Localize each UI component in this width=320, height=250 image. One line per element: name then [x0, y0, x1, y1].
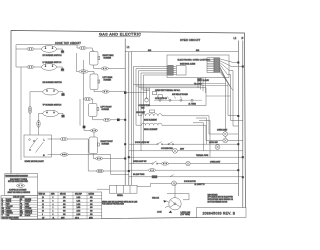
svg-text:250: 250 [63, 197, 66, 199]
svg-text:BAKE BROIL CLEAN: BAKE BROIL CLEAN [180, 63, 196, 66]
svg-text:C1 NO C2 NC C3: C1 NO C2 NC C3 [155, 98, 167, 100]
motor convection fan [145, 88, 149, 103]
connector EOC right block [207, 58, 220, 73]
wire module out N [52, 154, 61, 156]
svg-text:600: 600 [90, 197, 93, 199]
title GAS AND ELECTRIC [99, 33, 142, 37]
pin N [43, 155, 52, 158]
wire left bus x=21 [16, 49, 21, 160]
junction bus taps [124, 119, 130, 172]
svg-text:BROIL ELEMENT: BROIL ELEMENT [144, 129, 157, 131]
wire row light y=163.6 [129, 163, 238, 165]
wire TB right [137, 183, 151, 186]
svg-text:DOOR LATCH SW: DOOR LATCH SW [135, 141, 150, 144]
wire harness vertical drops [134, 85, 144, 164]
wire feed to valve column [77, 45, 79, 48]
wire into valve 4 [93, 132, 95, 137]
wire to bus row 158 [103, 158, 126, 160]
wire bus third mid [130, 52, 132, 186]
wire valve4 output 1 [93, 154, 95, 159]
connector valve4 out 2 [96, 169, 104, 172]
svg-text:COOLING FAN: COOLING FAN [161, 147, 173, 150]
wire lamp links [225, 134, 243, 141]
svg-text:16: 16 [42, 200, 44, 202]
wire valve2 out to bus [109, 91, 125, 93]
svg-text:THERMAL FUSE: THERMAL FUSE [196, 154, 208, 157]
label OVEN CIRCUIT [180, 39, 201, 42]
junction splice B [83, 126, 86, 129]
wire row motor y=183.4 [151, 182, 239, 184]
connector P1 row1 [27, 47, 34, 50]
wire EOC bottom drops [198, 78, 206, 93]
svg-text:TF BURNER SWITCH: TF BURNER SWITCH [43, 104, 62, 106]
wire vertical pair mid column [80, 60, 83, 126]
svg-text:18: 18 [42, 197, 44, 199]
lamp oven light 1 [223, 132, 228, 137]
igniter RF [61, 49, 64, 53]
svg-text:BK: BK [20, 215, 22, 217]
svg-text:600: 600 [90, 211, 93, 213]
svg-text:L: L [44, 140, 46, 142]
svg-text:600: 600 [90, 204, 93, 206]
svg-text:400: 400 [63, 200, 66, 202]
svg-text:W/B: W/B [20, 213, 23, 215]
svg-text:OVEN LIGHT SW: OVEN LIGHT SW [133, 161, 147, 163]
svg-text:OVEN LIGHT: OVEN LIGHT [210, 161, 220, 163]
svg-text:GREEN: GREEN [6, 210, 11, 212]
junction splice A [117, 119, 120, 122]
wire EOC left harness [134, 66, 168, 90]
connector P2 row2 [27, 65, 34, 68]
connector module L [60, 137, 67, 140]
spark module contacts [29, 138, 44, 153]
svg-text:208845033 REV. B: 208845033 REV. B [203, 212, 236, 216]
connector P4 [37, 120, 40, 127]
valve right rear burner [90, 50, 102, 68]
svg-text:L1: L1 [127, 46, 130, 49]
svg-text:LOCK: LOCK [157, 212, 162, 214]
motor latch [215, 144, 220, 149]
wire EOC harness corners [134, 85, 201, 91]
wire relay upper links [198, 84, 231, 97]
svg-text:600: 600 [90, 214, 93, 216]
relay coil row [154, 99, 202, 101]
svg-text:999: 999 [63, 214, 66, 216]
svg-text:(TOP VIEW): (TOP VIEW) [181, 214, 191, 216]
warning box [5, 174, 38, 196]
svg-text:5A 240V: 5A 240V [203, 79, 210, 82]
motor cooling fan [173, 148, 178, 153]
table color entries [2, 198, 32, 220]
svg-text:8A 125V FUSE: 8A 125V FUSE [133, 173, 145, 176]
svg-text:MIN CIR: MIN CIR [60, 194, 67, 196]
wire row2 y=67 [21, 66, 63, 68]
svg-text:GN: GN [2, 210, 4, 212]
label LEFT FRONT BURNER [101, 106, 113, 110]
wire valve4 output 2 [88, 139, 96, 171]
part number box [197, 208, 247, 218]
svg-text:N: N [242, 37, 244, 40]
connector P3 [28, 106, 31, 113]
connector valve1 out [101, 67, 108, 70]
label LEFT REAR BURNER [103, 76, 114, 81]
node N [242, 37, 244, 40]
connector row 170 [148, 169, 155, 172]
wire L1 to relay board [125, 92, 147, 94]
wire to bus [110, 119, 125, 121]
wire row y=170.2 [129, 169, 238, 171]
connector light [161, 162, 168, 165]
wire bus L2 right [237, 41, 239, 197]
wire bus neutral mid [128, 52, 130, 185]
svg-text:600: 600 [90, 200, 93, 202]
svg-text:2.053: 2.053 [77, 207, 81, 209]
svg-text:YELLOW: YELLOW [6, 206, 13, 208]
svg-text:120V: 120V [180, 148, 185, 150]
svg-text:PK: PK [20, 204, 22, 206]
pin L [44, 139, 52, 142]
wire module N long run [68, 155, 129, 175]
wire valve1 out to bus [108, 68, 125, 70]
connector valve3 out [103, 118, 110, 121]
svg-text:V: V [20, 201, 21, 203]
latch cam mechanism [165, 183, 189, 210]
node L2 [234, 37, 237, 40]
svg-text:CU: CU [42, 217, 44, 219]
svg-text:WHT/BLK: WHT/BLK [25, 213, 32, 215]
connector module N [61, 153, 69, 156]
wire into valve 2 [88, 72, 94, 75]
svg-text:BURNER: BURNER [104, 79, 112, 81]
svg-text:UNLOCK: UNLOCK [152, 197, 160, 199]
switch RR burner switch row3 [43, 89, 59, 96]
switch row fuse [170, 175, 174, 177]
relay steps [153, 92, 163, 98]
svg-text:BEFORE SERVICING UNIT.: BEFORE SERVICING UNIT. [8, 181, 29, 183]
valve left front burner [89, 104, 99, 117]
svg-text:BAKE ELEMENT: BAKE ELEMENT [144, 119, 157, 122]
svg-text:BLUE: BLUE [6, 208, 10, 210]
svg-text:LF BURNER SWITCH: LF BURNER SWITCH [43, 62, 62, 64]
svg-text:Y: Y [2, 206, 3, 208]
wire right bundle taps [228, 116, 243, 126]
wire bus N right [242, 41, 244, 209]
svg-text:#16: #16 [196, 50, 199, 52]
junction L1 tap [124, 91, 126, 93]
thermostat high limit [150, 110, 155, 113]
svg-text:VIOLET: VIOLET [25, 201, 30, 203]
lamp oven lamp [186, 161, 190, 165]
svg-text:BU: BU [2, 208, 4, 210]
wire row latch y=144 [129, 143, 238, 145]
switch door latch [157, 142, 174, 145]
wire module L to column [67, 138, 88, 140]
valve left rear burner [90, 74, 102, 92]
svg-text:14: 14 [42, 204, 44, 206]
connector valve2 out [102, 90, 109, 93]
switch TF burner switch row4 [43, 110, 59, 117]
switch oven light [152, 161, 158, 164]
svg-text:OVEN VENT THERMAL SW N.O.: OVEN VENT THERMAL SW N.O. [155, 89, 181, 92]
svg-text:1.291: 1.291 [77, 200, 81, 202]
svg-text:N: N [43, 155, 45, 157]
junction right bus taps [237, 62, 244, 179]
svg-text:L2: L2 [234, 37, 237, 40]
wire bus x=30 row3 drop [29, 92, 31, 135]
table wire gauge [38, 192, 102, 219]
switch LF burner switch [42, 64, 57, 71]
wire junction B link [84, 128, 90, 130]
svg-text:WARNING/AVERTISSEMENT: WARNING/AVERTISSEMENT [5, 174, 28, 177]
wire right vertical drop group [226, 71, 234, 132]
op electronic oven control box U1 [167, 55, 229, 78]
switch RF burner switch [42, 46, 57, 53]
svg-text:AL LIGHT TB: AL LIGHT TB [195, 183, 206, 186]
svg-text:GY: GY [20, 206, 22, 208]
note text block [97, 199, 139, 206]
wire top feed y=44.7 [16, 45, 77, 48]
svg-text:999: 999 [63, 211, 66, 213]
label RIGHT REAR BURNER [103, 54, 115, 59]
svg-text:PINK: PINK [25, 204, 29, 206]
svg-text:1.628: 1.628 [77, 204, 81, 206]
connector valve 3 feed [84, 97, 92, 100]
svg-text:10: 10 [42, 211, 44, 213]
label COOK TOP CIRCUIT [54, 42, 81, 45]
svg-text:800: 800 [63, 207, 66, 209]
svg-text:LB: LB [20, 208, 22, 210]
label RIGHT FRONT BURNER [101, 141, 114, 145]
spark module box [24, 135, 52, 157]
wire module out L [52, 138, 61, 140]
svg-text:B: B [2, 199, 3, 201]
heater broil element [136, 123, 223, 140]
svg-text:SERIAL: SERIAL [117, 194, 123, 197]
svg-text:600: 600 [90, 207, 93, 209]
wire row y=157.2 [129, 156, 243, 158]
svg-text:BOTTOM HINGED DOOR: BOTTOM HINGED DOOR [208, 201, 229, 203]
wire into valve 1 [86, 48, 92, 52]
svg-text:BURNER: BURNER [102, 109, 110, 111]
svg-text:AUX RELAY BOARD: AUX RELAY BOARD [172, 93, 189, 96]
svg-text:BURNER: BURNER [102, 144, 110, 146]
svg-text:OVEN LIGHT: OVEN LIGHT [217, 129, 227, 131]
table color code [1, 196, 38, 220]
svg-text:DISCONNECT POWER: DISCONNECT POWER [10, 179, 28, 181]
lamp oven light 2 [223, 138, 228, 143]
igniter LF [61, 67, 64, 71]
wire bus x=38.5 row4 drop [38, 113, 40, 135]
svg-text:1.024: 1.024 [77, 197, 81, 199]
svg-text:T: T [2, 215, 3, 217]
important text block [208, 193, 234, 203]
svg-text:LATCH SW: LATCH SW [209, 141, 218, 144]
arrow unlock [164, 200, 167, 203]
connector right rear valve [79, 46, 86, 49]
connector valve4 out 1 [95, 157, 102, 160]
svg-text:AL TERM: AL TERM [189, 103, 197, 106]
wire into valve 3 [83, 99, 92, 104]
svg-text:600V: 600V [61, 217, 65, 219]
wire nested corner group [193, 118, 210, 157]
svg-text:RF BURNER SWITCH: RF BURNER SWITCH [43, 55, 63, 57]
svg-text:12: 12 [42, 207, 44, 209]
svg-text:TB CONN: TB CONN [194, 84, 202, 86]
igniter RR [61, 92, 64, 96]
svg-text:GAS AND ELECTRIC: GAS AND ELECTRIC [99, 33, 141, 37]
wire stub valve2 feed [77, 53, 80, 72]
connector left rear valve [79, 70, 88, 73]
wire left bus x=16 [15, 48, 17, 50]
svg-text:BROWN: BROWN [25, 199, 31, 201]
svg-text:3.264: 3.264 [77, 214, 81, 216]
wire row fuse y=176.8 [129, 176, 243, 178]
wire #16 top run [125, 50, 238, 52]
wire TB left [97, 188, 110, 190]
fuse 5A 240V [198, 79, 210, 83]
connector EOC left block [168, 65, 186, 75]
motor door lock [172, 181, 177, 186]
border frame [11, 31, 246, 220]
svg-text:OVEN CIRCUIT: OVEN CIRCUIT [180, 39, 201, 42]
wire row3 [30, 91, 63, 93]
terminal block TB [110, 185, 138, 193]
connector warning symbol [17, 184, 25, 187]
wire row cooling y=150.8 [129, 150, 243, 152]
fuse 8A [152, 176, 157, 178]
label LATCH CAM [181, 211, 191, 216]
wire row4 [39, 112, 64, 114]
svg-text:COLOR CODE: COLOR CODE [13, 197, 25, 199]
svg-text:SPARK MODULE ASSY: SPARK MODULE ASSY [25, 160, 45, 163]
wire to bus row 171 [104, 170, 129, 172]
table wire gauge entries [39, 193, 95, 220]
svg-text:#16: #16 [148, 50, 151, 52]
svg-text:2.588: 2.588 [77, 211, 81, 213]
connector valve 4 feed [90, 129, 97, 132]
wire row1 y=49 [16, 48, 63, 50]
svg-text:BURNER: BURNER [104, 58, 112, 60]
igniter TF [61, 113, 64, 117]
wire valve3 output [93, 117, 104, 120]
svg-text:RR BURNER SWITCH: RR BURNER SWITCH [43, 82, 63, 84]
relay contacts ticks [157, 97, 182, 99]
node L1 [127, 46, 130, 49]
label CONVECTION FAN [139, 105, 151, 109]
relay board box [150, 88, 207, 106]
wire EOC right fanout [220, 59, 243, 91]
valve right front burner [89, 137, 99, 154]
svg-text:ELECTRONIC OVEN CONTROL: ELECTRONIC OVEN CONTROL [178, 59, 212, 61]
heater bake element [139, 114, 223, 134]
svg-text:LT BLUE: LT BLUE [25, 208, 31, 210]
warning text [8, 179, 31, 194]
svg-text:GROUND WIRE GREEN: GROUND WIRE GREEN [2, 218, 19, 220]
svg-text:WHITE: WHITE [6, 201, 11, 203]
svg-text:600: 600 [63, 204, 66, 206]
arrow lock [169, 211, 172, 214]
wire bus L1 main [124, 39, 126, 186]
